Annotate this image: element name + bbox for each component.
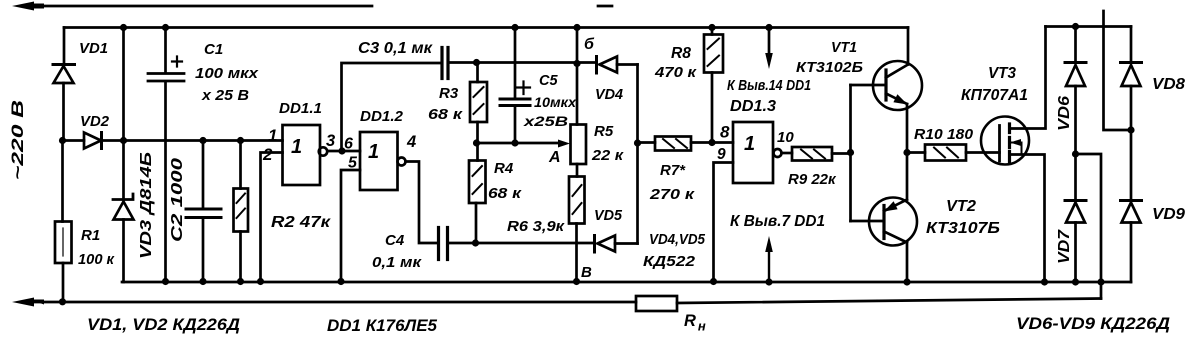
- wire R6 bottom to 0V: [575, 224, 578, 282]
- node junction R2 / bottom rail: [237, 278, 244, 285]
- node junction top rail / R8: [708, 24, 715, 31]
- svg-text:1: 1: [268, 126, 277, 145]
- wire VD4/VD5 anode column: [636, 65, 639, 244]
- diode VD5: [593, 236, 596, 253]
- svg-text:VD9: VD9: [1152, 206, 1185, 223]
- wire VT3 source to 0V rail: [1010, 155, 1045, 283]
- resistor R4: [469, 161, 486, 204]
- gate DD1.1 box: [283, 125, 321, 185]
- svg-text:VD4,VD5: VD4,VD5: [649, 231, 706, 248]
- node junction middle rail: [120, 137, 127, 144]
- resistor R6: [569, 177, 585, 224]
- svg-text:10мкх: 10мкх: [534, 95, 577, 110]
- svg-text:22 к: 22 к: [591, 147, 625, 164]
- wire R7 to pin8: [691, 141, 733, 144]
- node junction pin9 / bottom rail: [710, 278, 717, 285]
- svg-text:6: 6: [344, 136, 353, 153]
- svg-text:470 к: 470 к: [654, 64, 698, 81]
- diode VD9: [1130, 130, 1133, 282]
- node junction top rail / C1: [162, 24, 169, 31]
- wire C2 column: [202, 141, 205, 282]
- diode VD4: [595, 57, 598, 74]
- wire DD1.1 pin2 to 0V: [261, 153, 283, 282]
- diode VD2: [84, 133, 101, 149]
- wire node b column to R5: [576, 28, 579, 125]
- svg-text:VD2: VD2: [80, 113, 110, 130]
- svg-text:R5: R5: [594, 123, 614, 140]
- wire R7 left lead: [638, 141, 656, 144]
- resistor R3: [470, 82, 487, 122]
- wire VD2 anode: [63, 139, 85, 142]
- svg-text:Rн: Rн: [684, 312, 706, 334]
- svg-text:R3: R3: [439, 85, 459, 102]
- node junction VT3 source / bottom rail: [1041, 278, 1048, 285]
- svg-text:R8: R8: [671, 45, 691, 62]
- capacitor C1 (electrolytic): [148, 72, 184, 75]
- node junction pin2 / bottom rail: [257, 278, 264, 285]
- svg-text:VD5: VD5: [594, 207, 623, 224]
- gate DD1.1 output bubble pin3: [319, 147, 327, 155]
- svg-text:VD1: VD1: [79, 40, 108, 57]
- svg-text:1: 1: [368, 141, 379, 163]
- node junction C5 / node A: [511, 139, 518, 146]
- resistor R2: [234, 189, 249, 232]
- node junction R1/load line: [59, 298, 66, 305]
- svg-text:VD8: VD8: [1152, 76, 1185, 93]
- svg-text:R7*: R7*: [660, 162, 686, 179]
- svg-text:1: 1: [291, 136, 302, 158]
- gate DD1.3 output bubble pin10: [774, 149, 782, 157]
- node junction VD6/VD7/load: [1072, 150, 1079, 157]
- node junction bottom rail / load column: [1097, 278, 1104, 285]
- wire C1 column: [164, 28, 167, 282]
- node junction pin3/C3 branch: [338, 147, 345, 154]
- wire pin4 to C4: [406, 162, 437, 244]
- svg-text:0,1 мк: 0,1 мк: [372, 254, 423, 271]
- wire node A horizontal: [477, 142, 562, 145]
- wire +9V top rail: [64, 26, 908, 29]
- svg-text:VD7: VD7: [1056, 228, 1073, 264]
- svg-text:2: 2: [262, 145, 273, 164]
- wire R5 to R6: [576, 164, 579, 177]
- svg-text:VT3: VT3: [988, 65, 1016, 82]
- node junction bridge top / VD6: [1072, 23, 1079, 30]
- wire AC mains top line with left arrow: [22, 5, 612, 8]
- diode VD6: [1074, 27, 1077, 155]
- svg-text:А: А: [548, 149, 561, 166]
- wire DD1.2 pin5 to 0V: [341, 170, 360, 282]
- node junction VT2 collector / bottom rail: [903, 278, 910, 285]
- wire R3 leads: [476, 63, 479, 144]
- node junction middle rail / C2: [199, 137, 206, 144]
- gate DD1.2 box: [360, 132, 398, 190]
- svg-text:5: 5: [348, 155, 358, 172]
- svg-text:DD1 К176ЛЕ5: DD1 К176ЛЕ5: [327, 316, 438, 335]
- wire R2 column: [239, 141, 242, 282]
- substrate arrow VT3: [1012, 143, 1022, 155]
- svg-text:С3 0,1 мк: С3 0,1 мк: [358, 40, 433, 57]
- wire R10 left lead: [907, 151, 925, 154]
- svg-text:R9 22к: R9 22к: [788, 171, 837, 188]
- wire bridge top rail: [1046, 25, 1132, 28]
- wire middle +9V rail to DD1.1 pin1: [102, 139, 283, 142]
- svg-text:С4: С4: [385, 232, 405, 249]
- potentiometer R5: [571, 125, 587, 165]
- diode VD7: [1074, 154, 1077, 282]
- svg-text:VD6-VD9 КД226Д: VD6-VD9 КД226Д: [1016, 314, 1170, 333]
- svg-text:КП707А1: КП707А1: [961, 87, 1028, 104]
- svg-text:100 к: 100 к: [78, 251, 115, 268]
- resistor R7: [655, 137, 691, 151]
- svg-text:R2 47к: R2 47к: [271, 214, 331, 231]
- svg-text:1: 1: [744, 133, 755, 155]
- resistor R9: [792, 147, 832, 161]
- transistor VT1: [873, 61, 922, 110]
- wire C5 column: [514, 28, 517, 144]
- svg-text:С2 1000: С2 1000: [169, 157, 186, 242]
- wire R8 leads: [711, 28, 714, 143]
- node junction emitters/R10: [903, 149, 910, 156]
- wire pin10 to R9: [782, 152, 793, 155]
- wire load line bottom with left arrow: [22, 299, 1101, 304]
- svg-text:DD1.1: DD1.1: [279, 100, 322, 117]
- svg-text:VT2: VT2: [946, 198, 976, 215]
- wire AC stub to bridge right node: [1104, 11, 1132, 130]
- node junction top rail / pin14 arrow: [765, 24, 772, 31]
- wire 0V bottom rail: [122, 281, 1131, 284]
- node junction C2 / bottom rail: [199, 278, 206, 285]
- node junction top rail / VD3 column: [120, 24, 127, 31]
- node junction R3 top: [473, 59, 480, 66]
- node junction middle rail / R2: [237, 137, 244, 144]
- node junction VD7 / bottom rail: [1072, 278, 1079, 285]
- capacitor C2: [186, 208, 221, 211]
- node junction VD8/VD9: [1127, 126, 1134, 133]
- svg-text:В: В: [581, 264, 592, 281]
- svg-text:КТ3107Б: КТ3107Б: [926, 220, 1000, 237]
- wire base column: [849, 85, 852, 221]
- svg-text:DD1.2: DD1.2: [360, 108, 404, 125]
- svg-text:R1: R1: [81, 227, 100, 244]
- svg-text:270 к: 270 к: [649, 186, 696, 203]
- svg-text:КД522: КД522: [643, 253, 696, 270]
- resistor R10: [925, 145, 966, 161]
- wire VD3 column: [122, 28, 125, 283]
- resistor R8: [704, 35, 723, 73]
- wire R10 to VT3 gate: [966, 151, 1000, 154]
- svg-text:б: б: [584, 36, 595, 53]
- node junction pin5 / bottom rail: [337, 278, 344, 285]
- node junction VT1/VT2 base: [847, 149, 854, 156]
- node junction pin7 arrow / bottom rail: [765, 278, 772, 285]
- wire C4 to R4 node: [450, 242, 594, 245]
- svg-text:4: 4: [406, 133, 416, 151]
- node junction node A left: [473, 139, 480, 146]
- capacitor C4: [437, 228, 440, 260]
- resistor R1: [55, 222, 72, 264]
- svg-text:10: 10: [777, 129, 794, 146]
- svg-text:VD3 Д814Б: VD3 Д814Б: [138, 152, 155, 259]
- svg-text:8: 8: [720, 123, 730, 142]
- gate DD1.2 output bubble pin4: [398, 158, 406, 166]
- svg-text:R10 180: R10 180: [914, 126, 974, 143]
- node junction R4 bottom / C4: [472, 239, 479, 246]
- gate DD1.3 box: [733, 122, 773, 183]
- svg-text:~220 В: ~220 В: [8, 100, 27, 180]
- zener diode VD3: [113, 194, 133, 200]
- svg-text:VT1: VT1: [831, 39, 857, 56]
- wire bridge AC node to load line: [1076, 154, 1102, 299]
- svg-text:3: 3: [326, 132, 335, 150]
- wire C3 branch up: [342, 63, 441, 151]
- svg-text:х25В: х25В: [523, 114, 569, 129]
- wire R4 leads: [476, 143, 478, 243]
- node junction node b: [573, 60, 580, 67]
- svg-text:С5: С5: [539, 73, 558, 89]
- wire to pin 14 of DD1 with arrow: [768, 28, 771, 56]
- wire R9 to base node: [832, 152, 851, 155]
- diode VD1: [53, 63, 75, 66]
- svg-text:КТ3102Б: КТ3102Б: [796, 59, 863, 76]
- svg-text:К Выв.14 DD1: К Выв.14 DD1: [727, 77, 811, 94]
- svg-text:R4: R4: [494, 160, 514, 177]
- wire VD1 column from top rail: [62, 28, 65, 141]
- wire R1 column: [61, 141, 64, 303]
- resistor R_n load: [636, 296, 677, 311]
- svg-text:DD1.3: DD1.3: [730, 98, 776, 115]
- svg-text:68 к: 68 к: [488, 185, 523, 202]
- transistor VT3 (MOSFET): [981, 117, 1029, 165]
- diode VD8: [1130, 27, 1133, 131]
- wiper arrow into R5 (node A): [558, 140, 570, 148]
- svg-text:9: 9: [717, 146, 726, 163]
- node junction top rail / node b column: [573, 24, 580, 31]
- node junction pin8/R8/R7: [708, 139, 715, 146]
- wire to pin 7 arrow: [768, 250, 770, 282]
- node junction top rail / C5: [511, 24, 518, 31]
- plus sign C1: [172, 57, 182, 67]
- plus sign C5: [517, 82, 530, 95]
- svg-text:100 мкх: 100 мкх: [195, 65, 259, 82]
- wire DD1.3 pin9 to 0V: [714, 163, 734, 282]
- transistor VT2: [869, 198, 917, 246]
- svg-text:К Выв.7 DD1: К Выв.7 DD1: [730, 213, 825, 230]
- wire VT3 drain to bridge top: [1010, 27, 1046, 129]
- wire VD4 anode to right column: [617, 63, 638, 66]
- wire VT2 base lead: [851, 220, 885, 223]
- svg-text:VD1, VD2 КД226Д: VD1, VD2 КД226Д: [87, 315, 240, 334]
- node junction R7 tap: [634, 139, 641, 146]
- node junction R6 / bottom rail: [573, 278, 580, 285]
- wire VT1 base lead: [851, 84, 887, 87]
- node junction C1 / bottom rail: [162, 278, 169, 285]
- wire pin3 to DD1.2 pin6: [328, 150, 361, 153]
- svg-text:х 25 В: х 25 В: [201, 87, 249, 104]
- svg-text:VD6: VD6: [1056, 96, 1073, 131]
- svg-text:VD4: VD4: [595, 86, 624, 103]
- svg-text:С1: С1: [204, 41, 223, 58]
- wire VD5 anode: [615, 242, 638, 245]
- wire C3 to R3 node: [450, 61, 597, 64]
- svg-text:68 к: 68 к: [428, 106, 464, 123]
- svg-text:R6 3,9к: R6 3,9к: [507, 219, 565, 235]
- capacitor C3: [440, 48, 443, 79]
- node junction VD1/VD2/R1: [59, 137, 66, 144]
- capacitor C5 (electrolytic): [500, 98, 530, 101]
